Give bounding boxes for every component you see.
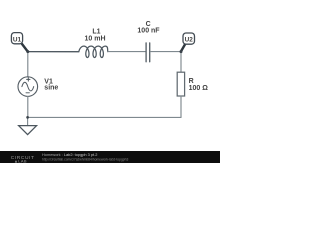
- svg-text:U1: U1: [13, 36, 22, 43]
- svg-text:sine: sine: [44, 84, 58, 91]
- svg-text:100 nF: 100 nF: [137, 28, 160, 35]
- svg-text:http://circuitlab.com/c/7a2whm: http://circuitlab.com/c/7a2whmb84/homewo…: [42, 157, 128, 161]
- svg-text:10 mH: 10 mH: [84, 36, 105, 43]
- svg-text:Homework : Lab2: topgph 3 pt.2: Homework : Lab2: topgph 3 pt.2: [42, 152, 97, 157]
- svg-text:U2: U2: [185, 37, 194, 44]
- svg-text:100 Ω: 100 Ω: [189, 85, 209, 92]
- svg-text:▲LAB: ▲LAB: [14, 158, 27, 163]
- svg-text:L1: L1: [92, 29, 100, 36]
